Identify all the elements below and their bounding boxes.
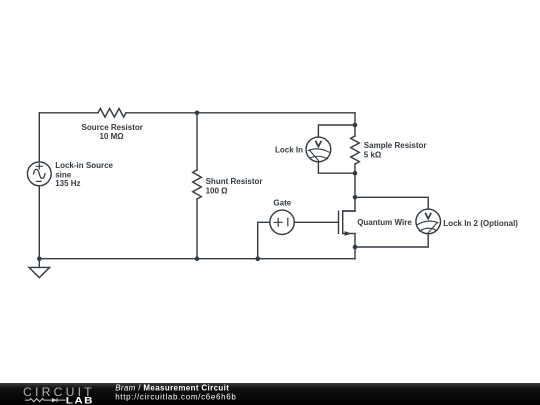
svg-text:sine: sine — [55, 170, 72, 179]
svg-text:http://circuitlab.com/c6e6h6b: http://circuitlab.com/c6e6h6b — [115, 392, 236, 401]
svg-text:LAB: LAB — [66, 395, 94, 405]
svg-text:Lock In 2 (Optional): Lock In 2 (Optional) — [443, 219, 518, 228]
svg-text:100 Ω: 100 Ω — [206, 186, 229, 195]
svg-text:5 kΩ: 5 kΩ — [364, 150, 382, 159]
svg-text:Gate: Gate — [273, 199, 291, 208]
svg-text:Lock-in Source: Lock-in Source — [55, 161, 113, 170]
svg-text:Bram / Measurement Circuit: Bram / Measurement Circuit — [115, 383, 229, 392]
svg-text:Lock In: Lock In — [275, 146, 303, 155]
svg-text:Source Resistor: Source Resistor — [82, 123, 143, 132]
svg-text:Sample Resistor: Sample Resistor — [364, 141, 427, 150]
svg-text:Shunt Resistor: Shunt Resistor — [206, 177, 263, 186]
svg-text:Quantum Wire: Quantum Wire — [357, 218, 412, 227]
svg-text:135 Hz: 135 Hz — [55, 179, 80, 188]
svg-text:10 MΩ: 10 MΩ — [99, 132, 124, 141]
